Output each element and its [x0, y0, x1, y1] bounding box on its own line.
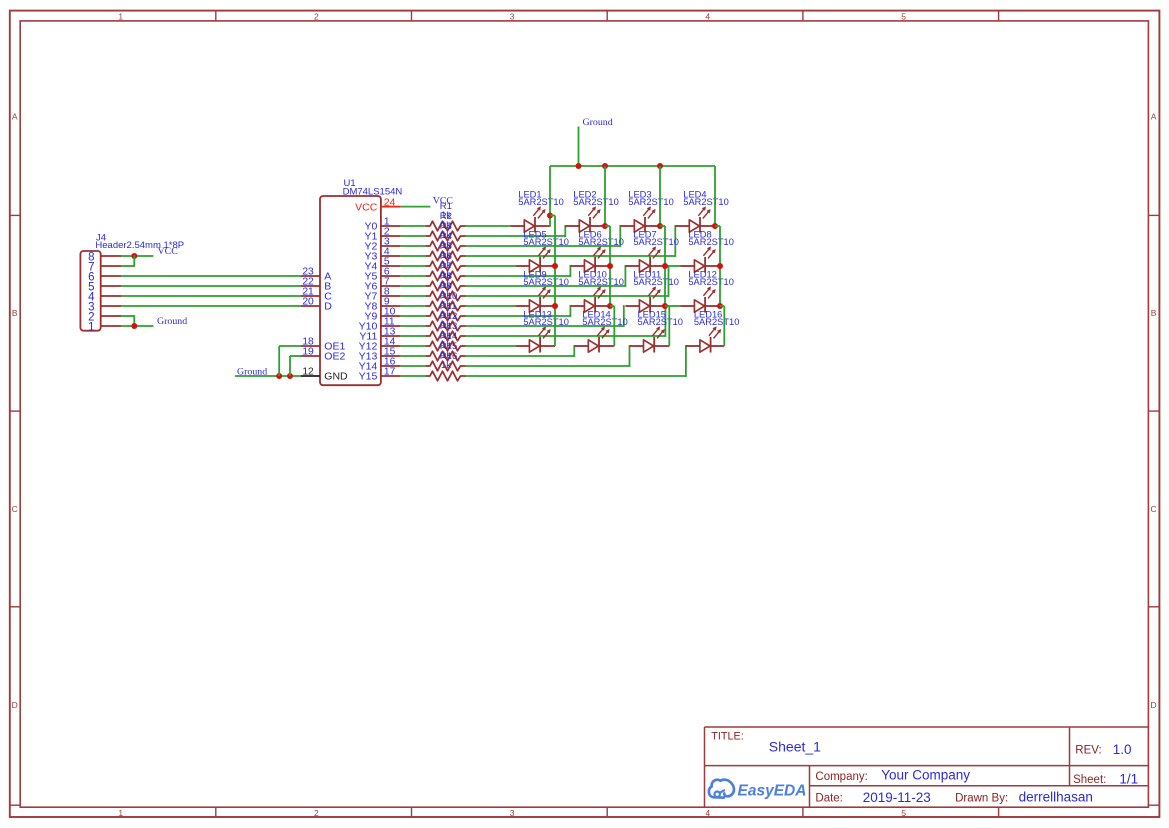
svg-text:3: 3 [510, 12, 515, 22]
svg-text:REV:: REV: [1075, 745, 1101, 757]
svg-text:5AR2ST10: 5AR2ST10 [688, 237, 733, 247]
svg-text:19: 19 [302, 347, 314, 358]
svg-text:Your Company: Your Company [881, 768, 970, 783]
svg-text:4: 4 [705, 12, 710, 22]
svg-text:Company:: Company: [815, 771, 867, 783]
svg-text:3: 3 [510, 808, 515, 818]
svg-text:5AR2ST10: 5AR2ST10 [573, 197, 618, 207]
svg-text:D: D [12, 700, 18, 710]
svg-text:5AR2ST10: 5AR2ST10 [683, 197, 728, 207]
svg-text:2: 2 [314, 12, 319, 22]
svg-text:1/1: 1/1 [1119, 772, 1138, 787]
svg-text:A: A [1151, 111, 1157, 121]
svg-text:1: 1 [88, 321, 94, 333]
svg-text:5AR2ST10: 5AR2ST10 [578, 237, 623, 247]
svg-text:5AR2ST10: 5AR2ST10 [523, 317, 568, 327]
svg-text:1.0: 1.0 [1113, 742, 1132, 757]
svg-text:derrellhasan: derrellhasan [1019, 790, 1093, 805]
svg-text:Ground: Ground [157, 316, 187, 327]
svg-text:VCC: VCC [158, 246, 179, 257]
svg-text:B: B [12, 308, 18, 318]
svg-text:17: 17 [384, 367, 396, 378]
svg-text:5: 5 [901, 12, 906, 22]
svg-text:5AR2ST10: 5AR2ST10 [688, 277, 733, 287]
svg-text:4: 4 [705, 808, 710, 818]
svg-text:1: 1 [118, 808, 123, 818]
svg-text:5: 5 [901, 808, 906, 818]
svg-text:5AR2ST10: 5AR2ST10 [633, 237, 678, 247]
svg-text:D: D [1151, 700, 1157, 710]
svg-text:5AR2ST10: 5AR2ST10 [628, 197, 673, 207]
svg-text:1k: 1k [441, 360, 451, 371]
svg-text:2: 2 [314, 808, 319, 818]
svg-text:TITLE:: TITLE: [711, 731, 743, 743]
svg-text:C: C [1151, 504, 1157, 514]
svg-text:Date:: Date: [815, 793, 843, 805]
svg-text:5AR2ST10: 5AR2ST10 [582, 317, 627, 327]
svg-text:5AR2ST10: 5AR2ST10 [578, 277, 623, 287]
svg-text:VCC: VCC [355, 201, 378, 213]
svg-text:Drawn By:: Drawn By: [955, 793, 1008, 805]
svg-text:A: A [12, 111, 18, 121]
svg-text:Ground: Ground [583, 117, 613, 128]
svg-text:D: D [324, 301, 332, 313]
svg-text:C: C [12, 504, 18, 514]
svg-text:20: 20 [302, 297, 314, 308]
svg-text:1: 1 [118, 12, 123, 22]
svg-text:Y15: Y15 [359, 371, 378, 383]
svg-text:5AR2ST10: 5AR2ST10 [633, 277, 678, 287]
svg-text:2019-11-23: 2019-11-23 [863, 790, 931, 805]
svg-text:12: 12 [302, 367, 314, 378]
svg-text:5AR2ST10: 5AR2ST10 [694, 317, 739, 327]
svg-text:5AR2ST10: 5AR2ST10 [638, 317, 683, 327]
svg-text:GND: GND [324, 371, 348, 383]
svg-text:Sheet:: Sheet: [1073, 774, 1106, 786]
svg-text:5AR2ST10: 5AR2ST10 [523, 277, 568, 287]
svg-text:OE2: OE2 [324, 351, 345, 363]
svg-text:24: 24 [384, 197, 396, 208]
svg-text:5AR2ST10: 5AR2ST10 [518, 197, 563, 207]
svg-text:B: B [1151, 308, 1157, 318]
svg-text:5AR2ST10: 5AR2ST10 [523, 237, 568, 247]
svg-text:EasyEDA: EasyEDA [738, 782, 807, 799]
svg-text:Sheet_1: Sheet_1 [769, 738, 821, 754]
